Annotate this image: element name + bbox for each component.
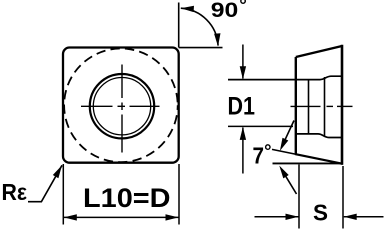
arrowhead at bottom of 90-degree arc [214, 33, 220, 46]
side view horizontal centerline [291, 105, 353, 107]
hole bottom silhouette line with countersink step [296, 134, 342, 138]
S right arrowhead [344, 214, 357, 220]
L10 right arrowhead [166, 214, 179, 220]
hole bore vertical line [308, 80, 310, 134]
7-degree lower arrowhead [279, 166, 288, 179]
svg-text:°: ° [264, 140, 271, 161]
countersink vertical line [324, 77, 326, 137]
side view left edge (seating face) [295, 57, 297, 154]
90-degree vertical extension line [178, 3, 180, 48]
S left arrowhead [286, 214, 299, 220]
side view top edge [296, 46, 342, 57]
svg-text:7: 7 [253, 143, 265, 169]
svg-text:90: 90 [211, 0, 239, 22]
side view bottom edge [295, 154, 343, 164]
L10 dimension line [64, 216, 179, 218]
hole top silhouette line with countersink step (also D1 top extension) [228, 76, 342, 79]
D1 lower dimension line [242, 128, 244, 174]
7-degree upper arrowhead [280, 138, 288, 151]
L10 left arrowhead [64, 214, 77, 220]
hole inner circle (countersink edge) [93, 78, 150, 135]
S right dimension line [344, 216, 384, 218]
90-degree dimension arc [181, 8, 218, 45]
7-degree upper leader line [282, 121, 294, 147]
Re leader arrowhead [53, 165, 62, 178]
S left dimension line [255, 216, 299, 218]
vertical centerline of hole [121, 65, 123, 153]
L10 right extension line [178, 164, 180, 225]
svg-text:°: ° [239, 0, 247, 17]
inscribed circle (dashed) [64, 49, 178, 163]
side view bottom edge extension (7-degree flank line) [272, 149, 297, 154]
D1 bottom extension line [228, 125, 293, 127]
svg-text:S: S [313, 200, 328, 226]
L10 left extension line [62, 164, 64, 225]
svg-text:D1: D1 [228, 92, 256, 120]
D1 lower arrowhead [240, 127, 246, 140]
7-degree horizontal reference line [273, 162, 343, 164]
horizontal centerline of hole [81, 105, 160, 107]
hole outer circle [90, 74, 154, 138]
S right extension line [342, 166, 344, 229]
svg-text:Rε: Rε [2, 179, 28, 205]
Re corner-radius leader line [28, 165, 62, 201]
insert body outline (plan view, square with rounded corners) [63, 48, 179, 163]
90-degree horizontal extension line [179, 47, 223, 49]
S left extension line [298, 165, 300, 229]
7-degree lower leader line [284, 173, 297, 194]
D1 upper dimension line [242, 45, 244, 79]
svg-text:L10=D: L10=D [83, 183, 171, 213]
D1 upper arrowhead [240, 66, 246, 79]
side view right edge (top face) [341, 45, 344, 165]
arrowhead at top of 90-degree arc [181, 6, 194, 12]
